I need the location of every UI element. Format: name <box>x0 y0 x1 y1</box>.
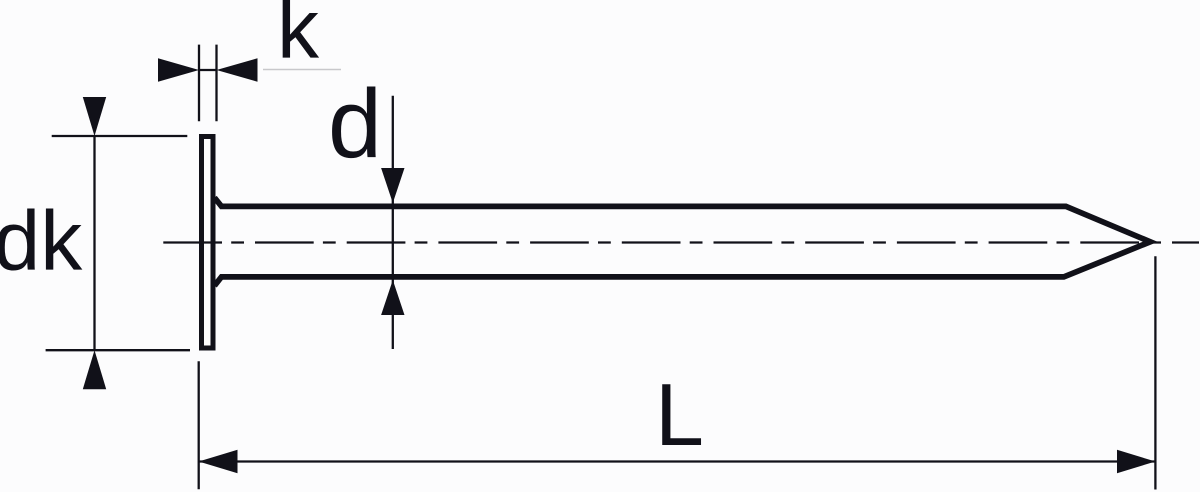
centerline (dash-dot axis line) <box>163 241 1199 243</box>
nail shank with point (taper to tip) and head flare <box>215 198 1151 286</box>
nail head (flat head, tall narrow rectangle) <box>202 137 214 349</box>
dimension k: right arrow pointing left at head right face <box>217 58 258 81</box>
dimension d: lower arrow pointing up at shank bottom edge <box>381 280 404 315</box>
dimension k: left arrow pointing right at head left face <box>158 58 199 81</box>
dimension L: left extension line below head <box>198 361 200 489</box>
dimension dk: bottom arrow pointing up <box>83 350 106 389</box>
svg-text:L: L <box>655 365 704 464</box>
dimension dk: top arrow pointing down <box>83 97 106 136</box>
dimension dk: top extension line at head top <box>52 135 188 137</box>
dimension k: right extension line (head right face) <box>215 45 217 122</box>
dimension L: horizontal dim line <box>199 460 1156 462</box>
dimension k: light gray leader line to label <box>263 69 341 71</box>
dimension L: right arrow pointing right <box>1117 450 1155 473</box>
dimension k: left extension line (head left face) <box>198 45 200 122</box>
dimension d: upper arrow pointing down at shank top edge <box>381 168 404 203</box>
svg-text:k: k <box>277 0 320 76</box>
dimension dk: bottom extension line at head bottom <box>46 349 190 351</box>
dimension k: short dim line between extension lines <box>199 69 217 71</box>
svg-text:d: d <box>328 69 382 178</box>
svg-text:dk: dk <box>0 193 83 287</box>
dimension dk: vertical dim line <box>93 136 95 350</box>
dimension d: vertical dim line through shank <box>392 96 394 349</box>
dimension L: left arrow pointing left <box>199 450 238 473</box>
dimension L: right extension line below nail tip <box>1154 256 1156 489</box>
